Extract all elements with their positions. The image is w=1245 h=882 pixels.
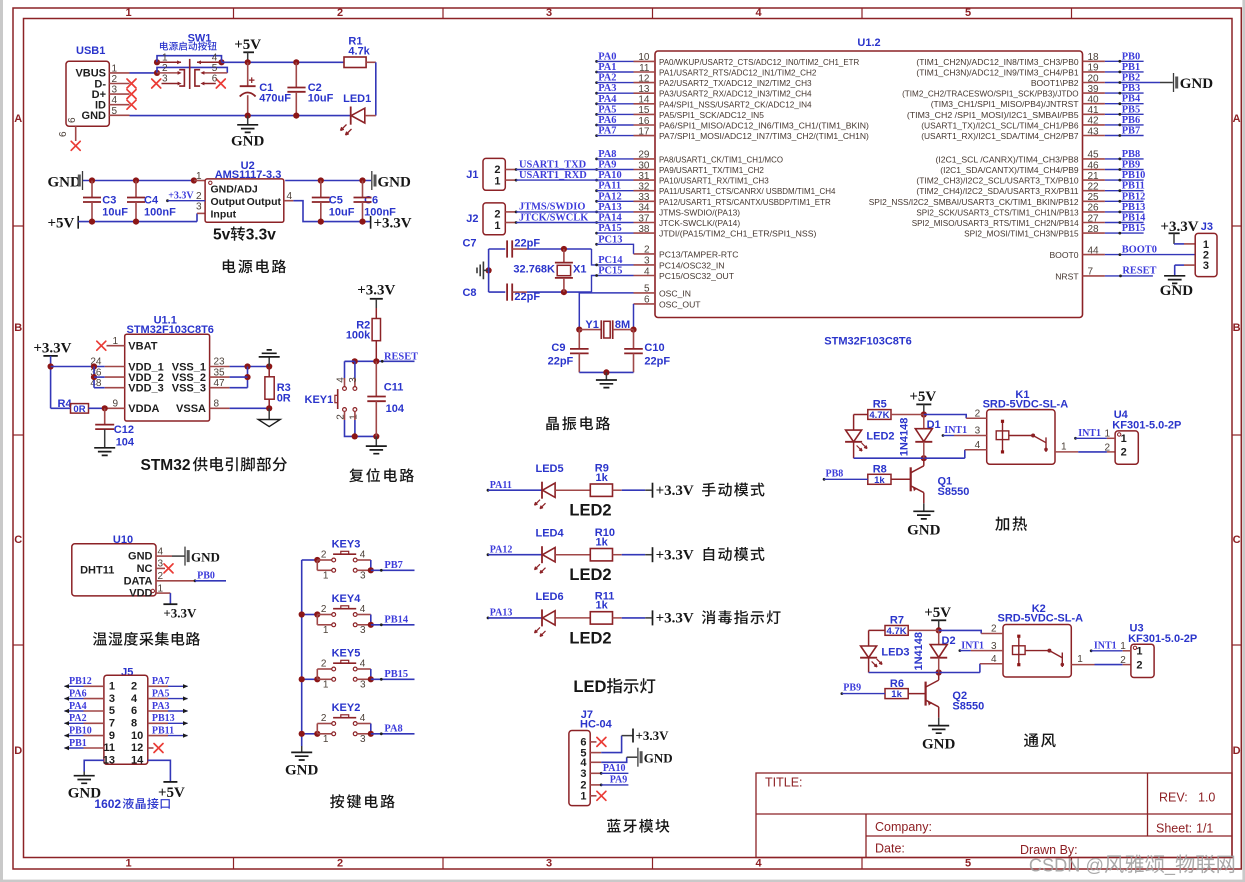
J7 pin2 wire (590, 784, 601, 786)
wire GND rail to U2 pin1 (83, 180, 194, 182)
svg-text:KEY5: KEY5 (332, 648, 361, 660)
U1.2 pin 4 stub (634, 275, 656, 277)
svg-text:4.7K: 4.7K (887, 626, 907, 637)
svg-text:GND: GND (231, 134, 265, 150)
svg-text:PB10: PB10 (1122, 170, 1146, 181)
USB1 pin 5 stub (109, 114, 129, 116)
wire net PA4 (595, 102, 598, 105)
svg-text:3: 3 (580, 768, 586, 780)
svg-text:2: 2 (131, 681, 137, 693)
svg-text:GND: GND (907, 522, 941, 538)
svg-text:1.0: 1.0 (1198, 791, 1215, 805)
transistor Q1 symbol (910, 467, 912, 491)
svg-text:PA9/USART1_TX/TIM1_CH2: PA9/USART1_TX/TIM1_CH2 (659, 165, 764, 175)
capacitor C2 symbol (295, 62, 297, 87)
U1.2 pin 41 stub (1083, 113, 1105, 115)
wire net PB11 (1105, 190, 1144, 192)
svg-text:VSS_3: VSS_3 (172, 383, 206, 395)
svg-text:1: 1 (323, 734, 329, 745)
junction dot C6 bottom (359, 219, 365, 225)
svg-text:+3.3V: +3.3V (656, 611, 694, 627)
wire R5 left corner (854, 414, 868, 416)
net label PB8 (823, 478, 826, 481)
caption LED2 row (569, 502, 611, 520)
J5 pin14 +5V wire (148, 760, 171, 782)
wire VSS_2 row (230, 376, 248, 378)
svg-text:(USART1_TX)/I2C1_SCL/TIM4_CH1/: (USART1_TX)/I2C1_SCL/TIM4_CH1/PB6 (921, 120, 1079, 130)
svg-text:PA7/SPI1_MOSI/ADC12_IN7/TIM3_C: PA7/SPI1_MOSI/ADC12_IN7/TIM3_CH2/(TIM1_C… (659, 131, 869, 141)
svg-text:25: 25 (1088, 192, 1100, 203)
U1.2 pin 16 stub (634, 124, 656, 126)
junction dot C4 top (133, 177, 139, 183)
svg-text:LED3: LED3 (881, 646, 909, 658)
svg-text:Input: Input (211, 208, 237, 220)
svg-text:LED2: LED2 (866, 431, 894, 443)
svg-text:C9: C9 (551, 342, 565, 354)
KEY1 pin 2 contact (343, 408, 347, 412)
svg-text:PA8: PA8 (384, 724, 402, 735)
J5 left wire PA4 (84, 710, 104, 712)
svg-text:(TIM2_CH2/TRACESWO/SPI1_SCK/PB: (TIM2_CH2/TRACESWO/SPI1_SCK/PB3)/JTDO (902, 89, 1079, 99)
svg-text:1N4148: 1N4148 (913, 632, 925, 671)
junction dot KEY1 bottom (352, 433, 358, 439)
J7 pin5 wire (590, 752, 601, 754)
relay K1 pin4 wire (964, 450, 966, 458)
svg-text:GND/ADJ: GND/ADJ (211, 183, 258, 195)
svg-text:2: 2 (162, 63, 168, 74)
svg-text:PA8: PA8 (598, 149, 616, 160)
svg-text:(TIM1_CH2N)/ADC12_IN8/TIM3_CH3: (TIM1_CH2N)/ADC12_IN8/TIM3_CH3/PB0 (916, 57, 1078, 67)
svg-text:PA4/SPI1_NSS/USART2_CK/ADC12_I: PA4/SPI1_NSS/USART2_CK/ADC12_IN4 (659, 99, 812, 109)
chip U1.1 body (125, 334, 210, 421)
USB1 pin 1 stub (109, 72, 129, 74)
svg-text:GND: GND (644, 750, 673, 765)
svg-text:+5V: +5V (48, 216, 75, 232)
svg-text:3: 3 (109, 693, 115, 705)
svg-text:2: 2 (975, 409, 981, 420)
wire PA13 to LED6 (488, 617, 542, 619)
svg-text:1: 1 (323, 571, 329, 582)
SW1 pin2 contact arm (157, 72, 178, 74)
wire net PA14 dot (595, 221, 598, 224)
J5 right wire PA3 (148, 710, 168, 712)
svg-text:KEY2: KEY2 (332, 702, 361, 714)
wire net PA6 (595, 124, 598, 127)
svg-text:GND: GND (1160, 283, 1194, 299)
svg-text:12: 12 (638, 73, 650, 84)
svg-text:2: 2 (321, 550, 327, 561)
svg-text:3: 3 (991, 641, 997, 652)
J7 pin6 stub (590, 741, 596, 743)
svg-text:+3.3V: +3.3V (163, 606, 197, 621)
svg-text:LED1: LED1 (343, 93, 371, 105)
svg-text:Company:: Company: (875, 820, 932, 834)
wire net PB12 (1105, 200, 1144, 202)
SW1 top loop wire (157, 56, 222, 63)
wire K2 bottom rail (869, 672, 939, 674)
connector J7 body (569, 731, 590, 806)
wire K1 bottom rail (854, 457, 924, 459)
net label INT1 at U4 (1074, 437, 1077, 440)
svg-text:PA2/USART2_TX/ADC12_IN2/TIM2_C: PA2/USART2_TX/ADC12_IN2/TIM2_CH3 (659, 78, 812, 88)
wire crystal bottom (579, 371, 633, 373)
junction dot C3 top (89, 177, 95, 183)
svg-text:PB10: PB10 (69, 725, 92, 736)
wire net PA10 dot (595, 179, 598, 182)
svg-text:5: 5 (212, 63, 218, 74)
svg-text:CSDN @: CSDN @ (1029, 856, 1104, 876)
svg-text:R5: R5 (873, 399, 887, 411)
U1.2 pin 46 stub (1083, 169, 1105, 171)
ground below Y1 (605, 372, 607, 379)
wire net PA7 (595, 134, 598, 137)
wire trunk to KEY4 (302, 614, 318, 616)
svg-text:1k: 1k (596, 600, 609, 612)
svg-text:1: 1 (1136, 646, 1142, 658)
svg-text:9: 9 (109, 730, 115, 742)
svg-text:1: 1 (494, 220, 500, 232)
LED LED4 symbol (541, 546, 543, 563)
resistor R11 body (590, 612, 612, 624)
wire net PA2 (595, 81, 598, 84)
wire R8 to base (891, 478, 911, 480)
wire +3.3V to J3 pin1 (1173, 233, 1175, 244)
svg-text:3: 3 (360, 571, 366, 582)
connector J3 body (1195, 233, 1217, 276)
wire R9 to +3.3V (613, 489, 622, 491)
relay K2 pin2 wire (939, 630, 982, 633)
svg-text:SPI2_MISO/USART3_RTS/TIM1_CH2N: SPI2_MISO/USART3_RTS/TIM1_CH2N/PB14 (912, 218, 1079, 228)
svg-text:2: 2 (494, 164, 500, 176)
svg-text:5: 5 (965, 7, 971, 19)
resistor R8 body (868, 474, 891, 484)
svg-text:2: 2 (991, 624, 997, 635)
svg-text:PB0: PB0 (197, 570, 215, 581)
svg-text:470uF: 470uF (259, 93, 291, 105)
svg-text:C: C (14, 534, 22, 546)
svg-text:2: 2 (337, 858, 343, 870)
junction dot X1 bottom (561, 289, 567, 295)
svg-text:43: 43 (1088, 126, 1100, 137)
U2 pin4 stub and wire (284, 200, 294, 202)
crystal Y1 symbol (579, 329, 601, 331)
power GND at PB2 (1173, 73, 1175, 92)
U1.2 pin 15 stub (634, 113, 656, 115)
net label INT1 at K2 pin3 (959, 649, 962, 652)
wire net PB14 (1105, 222, 1144, 224)
resistor R2 body (375, 308, 377, 319)
wire key trunk (301, 560, 303, 746)
svg-text:PB12: PB12 (1122, 191, 1146, 202)
svg-text:LED4: LED4 (536, 528, 565, 540)
svg-text:8: 8 (131, 718, 137, 730)
wire net PA12 (595, 200, 598, 203)
U1.2 pin 37 stub (634, 222, 656, 224)
svg-text:3: 3 (546, 7, 552, 19)
U1.2 pin 21 stub (1083, 179, 1105, 181)
svg-text:NRST: NRST (1055, 271, 1079, 281)
wire USB GND rail (130, 115, 351, 117)
U1.2 pin 30 stub (634, 169, 656, 171)
svg-text:13: 13 (638, 84, 650, 95)
svg-text:(TIM2_CH4)/I2C2_SDA/USART3_RX/: (TIM2_CH4)/I2C2_SDA/USART3_RX/PB11 (916, 186, 1078, 196)
USB1 pin 3 stub (109, 93, 129, 95)
svg-text:4: 4 (360, 713, 366, 724)
svg-text:21: 21 (1088, 171, 1100, 182)
power GND right of U2 (371, 171, 373, 190)
svg-text:7: 7 (1088, 267, 1094, 278)
svg-text:1: 1 (323, 680, 329, 691)
svg-text:13: 13 (103, 755, 115, 767)
resistor R9 body (590, 484, 612, 496)
svg-text:S8550: S8550 (952, 701, 984, 713)
svg-text:4: 4 (644, 266, 650, 277)
wire R7 to dot (908, 629, 939, 631)
svg-text:3: 3 (196, 202, 202, 213)
svg-text:22: 22 (1088, 182, 1100, 193)
relay K2 pin3 wire (960, 650, 971, 652)
wire net PB5 (1105, 113, 1144, 115)
connector J2 body (483, 203, 505, 235)
wire U2 right GND rail (285, 180, 371, 182)
LED LED6 symbol (541, 609, 543, 626)
junction dot VSS1 (244, 363, 250, 369)
U1.1 VBAT stub (107, 345, 125, 347)
junction dot VSSA R3 (266, 405, 272, 411)
svg-text:2: 2 (494, 209, 500, 221)
relay K2 pin4 wire (979, 664, 981, 673)
U1.2 pin 7 stub (1083, 275, 1105, 277)
wire RESET at NRST (1105, 275, 1153, 277)
resistor R10 body (590, 549, 612, 561)
wire VBUS to SW1 pin2 (130, 72, 158, 74)
capacitor C3 symbol (91, 181, 93, 198)
wire SW1 pin4 to R1 (222, 61, 345, 63)
section title 蓝牙模块 (607, 819, 669, 833)
junction dot KEY4 left (314, 611, 320, 617)
wire R7 left corner (869, 629, 885, 631)
KEY2 pin 4 contact (353, 722, 357, 726)
svg-text:PB4: PB4 (1122, 94, 1140, 105)
svg-text:6: 6 (212, 74, 218, 85)
svg-text:BOOT0: BOOT0 (1049, 250, 1078, 260)
svg-text:3: 3 (360, 734, 366, 745)
U10 GND pin wire (156, 555, 172, 557)
svg-text:VDD_3: VDD_3 (128, 383, 163, 395)
LED LED1 light arrows (341, 125, 347, 131)
svg-text:28: 28 (1088, 224, 1100, 235)
svg-text:GND: GND (378, 175, 412, 191)
U1.2 pin 40 stub (1083, 103, 1105, 105)
J7 pin4 wire (590, 761, 601, 763)
diode D1 symbol (923, 415, 925, 429)
junction dot C1 bottom (245, 113, 251, 119)
wire net PB13 (1105, 211, 1144, 213)
svg-text:PA7: PA7 (152, 676, 170, 687)
wire net PB9 (1105, 169, 1144, 171)
relay K1 pin2 wire (924, 415, 966, 419)
wire net PA0 (595, 60, 598, 63)
resistor R6 body (885, 689, 908, 699)
ground at J3 (1164, 276, 1185, 284)
svg-text:GND: GND (922, 737, 956, 753)
svg-text:JTMS-SWDIO/(PA13): JTMS-SWDIO/(PA13) (659, 207, 740, 217)
wire R5 to dot (891, 414, 924, 416)
svg-text:1: 1 (1121, 433, 1127, 445)
KEY4 right wires (357, 614, 371, 616)
frame zone dividers (233, 8, 235, 19)
svg-text:KEY4: KEY4 (332, 593, 362, 605)
J5 left wire PA6 (84, 698, 104, 700)
svg-text:REV:: REV: (1159, 791, 1188, 805)
svg-text:1: 1 (196, 171, 202, 182)
J7 pin3 wire (590, 772, 601, 774)
svg-text:3: 3 (1203, 260, 1209, 272)
capacitor C4 symbol (135, 181, 137, 198)
svg-text:KEY3: KEY3 (332, 539, 361, 551)
capacitor C5 symbol (320, 181, 322, 198)
svg-text:PB11: PB11 (152, 725, 174, 736)
wire net PB3 (1105, 92, 1144, 94)
svg-text:R7: R7 (890, 615, 904, 627)
USB1 pin 2 stub (109, 83, 129, 85)
wire net PB8 (1105, 158, 1144, 160)
KEY1 plunger (337, 389, 339, 409)
power +3.3V at J7 (632, 729, 634, 743)
U10 pin1 indicator circle (151, 589, 154, 592)
J5 pin12 no-connect X (148, 747, 154, 749)
svg-text:26: 26 (1088, 203, 1100, 214)
resistor R3 body (268, 367, 270, 377)
svg-text:17: 17 (638, 126, 650, 137)
svg-text:(TIM1_CH3N)/ADC12_IN9/TIM3_CH4: (TIM1_CH3N)/ADC12_IN9/TIM3_CH4/PB1 (916, 67, 1078, 77)
svg-text:LED6: LED6 (536, 591, 564, 603)
svg-text:14: 14 (638, 95, 650, 106)
svg-text:104: 104 (116, 437, 135, 449)
svg-text:+3.3V: +3.3V (636, 728, 670, 743)
U1.2 pin 31 stub (634, 179, 656, 181)
svg-text:1: 1 (580, 791, 586, 803)
svg-text:C5: C5 (329, 195, 343, 207)
net label RESET (381, 360, 384, 363)
svg-text:Output: Output (211, 196, 246, 208)
USB1 pin 2 no-connect X (127, 79, 136, 88)
wire trunk to KEY3 (302, 559, 318, 561)
U1.2 pin 20 stub (1083, 82, 1105, 84)
LED LED3 symbol (861, 646, 877, 658)
svg-text:3: 3 (644, 256, 650, 267)
regulator U2 body (205, 179, 284, 222)
svg-text:PB6: PB6 (1122, 115, 1140, 126)
svg-text:PA3: PA3 (152, 701, 170, 712)
wire U2 pin2 feedback (166, 199, 169, 202)
svg-text:STM32: STM32 (141, 457, 191, 474)
KEY1 left branch wire (345, 360, 355, 362)
svg-text:PC15/OSC32_OUT: PC15/OSC32_OUT (659, 271, 735, 281)
U10 VDD wire (156, 592, 170, 594)
J5 right wire PB11 (148, 735, 168, 737)
svg-text:_: _ (1164, 856, 1176, 877)
svg-text:1: 1 (1077, 654, 1083, 665)
ground below C12 (94, 448, 115, 456)
U10 NC no-connect X (164, 564, 173, 573)
U1.2 pin 28 stub (1083, 232, 1105, 234)
svg-text:J1: J1 (466, 169, 478, 181)
svg-text:3.3v: 3.3v (246, 227, 277, 244)
svg-text:6: 6 (58, 131, 69, 137)
svg-text:DATA: DATA (124, 575, 153, 587)
svg-text:+5V: +5V (158, 785, 185, 801)
svg-text:2: 2 (321, 604, 327, 615)
svg-text:33: 33 (638, 192, 650, 203)
svg-text:PB14: PB14 (384, 615, 408, 626)
junction dot VSS1 R3 (266, 363, 272, 369)
svg-text:OSC_OUT: OSC_OUT (659, 299, 701, 309)
KEY3 right wires (357, 559, 371, 561)
svg-text:4: 4 (755, 7, 762, 19)
svg-text:1602: 1602 (94, 797, 121, 811)
svg-text:2: 2 (1121, 447, 1127, 459)
svg-text:27: 27 (1088, 213, 1100, 224)
relay K2 switch (1025, 650, 1049, 652)
svg-text:PB12: PB12 (69, 676, 92, 687)
svg-text:PA11: PA11 (598, 181, 621, 192)
section title 按键电路 (330, 794, 395, 808)
title block grid (756, 773, 1232, 858)
SW1 pin3 contact arm (162, 83, 179, 85)
svg-text:BOOT1\PB2: BOOT1\PB2 (1031, 78, 1079, 88)
svg-text:PB5: PB5 (1122, 104, 1140, 115)
svg-text:SRD-5VDC-SL-A: SRD-5VDC-SL-A (998, 613, 1084, 625)
svg-text:PA9: PA9 (610, 775, 628, 786)
svg-text:PA0: PA0 (598, 51, 616, 62)
U1.2 pin 13 stub (634, 92, 656, 94)
svg-text:29: 29 (638, 150, 650, 161)
section title 加热 (995, 516, 1027, 530)
svg-text:PB9: PB9 (843, 683, 861, 694)
svg-text:1: 1 (162, 52, 168, 63)
KEY1 right branch wire (354, 361, 356, 378)
svg-text:3: 3 (360, 625, 366, 636)
svg-text:2: 2 (321, 713, 327, 724)
wire J3 pin3 to GND (1184, 264, 1195, 266)
caption LED2 row (569, 566, 611, 584)
wire C8 to PC15 (527, 291, 592, 293)
wire USART1_RXD (515, 179, 518, 182)
J5 left wire PA2 (84, 722, 104, 724)
svg-text:PA0/WKUP/USART2_CTS/ADC12_IN0/: PA0/WKUP/USART2_CTS/ADC12_IN0/TIM2_CH1_E… (659, 57, 859, 67)
KEY3 pin 4 contact (353, 558, 357, 562)
junction dot C3 bottom (89, 219, 95, 225)
junction dot KEY4 right (368, 622, 374, 628)
svg-text:14: 14 (131, 755, 144, 767)
resistor R5 body (868, 410, 891, 420)
svg-text:5: 5 (965, 858, 971, 870)
U2 pin1 stub (194, 180, 205, 182)
relay K2 coil (1018, 636, 1020, 665)
svg-text:2: 2 (321, 659, 327, 670)
SW1 plunger bar (189, 59, 191, 89)
ground earth above R3 (268, 357, 270, 366)
svg-text:12: 12 (131, 742, 143, 754)
caption LED2 row (569, 629, 611, 647)
svg-text:GND: GND (285, 763, 319, 779)
svg-text:PB0: PB0 (1122, 51, 1140, 62)
svg-text:4: 4 (991, 654, 997, 665)
svg-text:INT1: INT1 (961, 640, 984, 651)
junction dot KEY5 left (314, 676, 320, 682)
USB1 pin 4 no-connect X (127, 100, 136, 109)
